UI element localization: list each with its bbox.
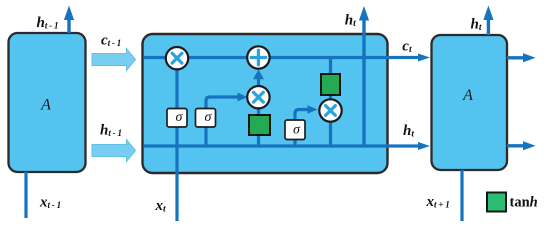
wire sigma3 branch elbow xyxy=(295,105,318,146)
svg-text:σ: σ xyxy=(205,110,213,125)
thick arrow c_(t-1) xyxy=(92,49,136,71)
wire multiply2 to add arrow xyxy=(253,70,264,91)
svg-text:ht - 1: ht - 1 xyxy=(37,15,59,31)
svg-text:ct - 1: ct - 1 xyxy=(101,32,121,48)
svg-text:σ: σ xyxy=(293,123,301,138)
wire sigma2 branch elbow xyxy=(206,93,248,146)
wire h_t up output xyxy=(359,6,369,146)
gate sigma 3 xyxy=(285,120,305,140)
wire h line xyxy=(144,142,430,150)
output arrow h_(t-1) up xyxy=(64,6,74,34)
svg-text:ht: ht xyxy=(345,13,356,30)
op multiply 2 xyxy=(247,86,269,108)
wire tanh2 branch vertical xyxy=(329,58,332,146)
svg-text:A: A xyxy=(40,97,51,114)
gate sigma 1 xyxy=(167,109,187,128)
svg-text:ht - 1: ht - 1 xyxy=(100,122,122,138)
output arrow right bottom xyxy=(507,141,536,150)
op add xyxy=(247,46,269,68)
svg-text:ht: ht xyxy=(471,16,482,33)
svg-text:xt: xt xyxy=(155,198,167,215)
svg-text:ct: ct xyxy=(402,38,412,55)
legend green box xyxy=(487,193,506,212)
svg-text:σ: σ xyxy=(176,110,184,125)
wire green1 branch vertical xyxy=(257,97,260,146)
svg-text:tanh: tanh xyxy=(510,195,538,211)
LSTM cell body xyxy=(143,34,388,173)
svg-text:xt + 1: xt + 1 xyxy=(426,194,450,210)
svg-text:ht: ht xyxy=(403,123,414,140)
svg-text:A: A xyxy=(462,87,473,104)
block A (t-1) xyxy=(9,33,86,172)
wire x_t input vertical xyxy=(175,60,178,221)
input wire x_(t-1) xyxy=(24,172,27,218)
output arrow right top xyxy=(507,53,536,62)
wire c line xyxy=(144,54,430,62)
input wire x_(t+1) xyxy=(460,170,463,221)
gate sigma 2 xyxy=(196,109,216,128)
svg-text:xt - 1: xt - 1 xyxy=(39,194,61,210)
op multiply 1 xyxy=(166,47,188,69)
op multiply 3 xyxy=(319,99,341,121)
output arrow h_t up right xyxy=(483,6,493,36)
thick arrow h_(t-1) xyxy=(92,140,136,162)
green box tanh 1 xyxy=(249,115,270,135)
green box tanh 2 xyxy=(321,74,340,95)
block A (t+1) xyxy=(432,35,508,170)
